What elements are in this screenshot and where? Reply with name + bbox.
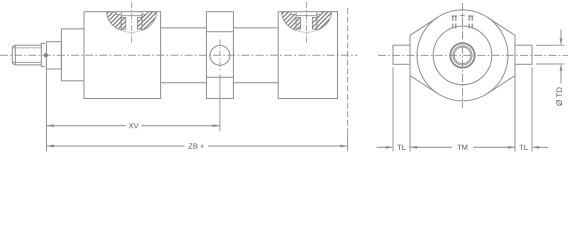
svg-text:XV: XV xyxy=(129,121,139,130)
shaft bore circle xyxy=(454,47,471,64)
XV dimension line xyxy=(47,125,127,127)
TD upper arrowhead xyxy=(560,38,563,45)
cap screws (pi marks) xyxy=(452,16,474,29)
inner ring top bar xyxy=(121,15,142,17)
node dot on centerline xyxy=(44,53,48,57)
flange body outline xyxy=(206,12,233,99)
inner ring strip right xyxy=(138,18,143,30)
XV extension from hole center xyxy=(219,75,221,132)
TM right arrowhead xyxy=(508,146,515,149)
right mounting lug xyxy=(515,45,532,64)
svg-text:TL: TL xyxy=(397,143,406,152)
ZB right arrowhead xyxy=(340,145,347,148)
bearing seat circle xyxy=(433,26,492,85)
outer ring wedge right xyxy=(317,12,332,31)
pocket arc bottom xyxy=(296,30,317,32)
centerline main shaft (left view) xyxy=(0,54,358,56)
TL left dimension line xyxy=(377,146,392,148)
middle flange block xyxy=(206,12,233,99)
ZB extension line solid lower part xyxy=(347,130,349,152)
TL right arrowhead xyxy=(532,146,539,149)
outer ring wedge left xyxy=(107,12,122,31)
flange upper face line xyxy=(206,31,233,33)
svg-text:Ø TD: Ø TD xyxy=(555,87,564,106)
dimension TL right xyxy=(532,146,548,149)
locking collar ring xyxy=(450,43,474,67)
right bearing pocket xyxy=(282,2,332,44)
dimension TL left xyxy=(377,146,394,149)
inner ring top bar xyxy=(296,15,317,17)
vertical centerline xyxy=(462,3,464,108)
horizontal centerline xyxy=(378,54,568,56)
right cap screw head xyxy=(468,16,473,21)
washer face xyxy=(41,43,45,66)
XV left arrowhead xyxy=(47,124,54,127)
left mounting lug xyxy=(393,45,410,64)
TD lower dimension line xyxy=(560,66,562,84)
split line tick xyxy=(460,15,464,17)
tangent lines xyxy=(410,17,515,93)
svg-text:TL: TL xyxy=(519,143,528,152)
pocket arc bottom xyxy=(121,30,142,32)
XV right arrowhead xyxy=(213,124,220,127)
outer ring wedge left xyxy=(282,12,297,31)
pocket centerline xyxy=(306,2,308,44)
flange bolt hole xyxy=(210,46,230,66)
thread root lines xyxy=(13,48,42,62)
threaded stub xyxy=(12,45,41,65)
stub outline with chamfers xyxy=(12,45,41,65)
right cap screw shank xyxy=(469,24,472,29)
inner ring circle xyxy=(453,46,472,65)
ZB dimension line xyxy=(47,145,185,147)
svg-text:TM: TM xyxy=(457,143,468,152)
left cap screw shank xyxy=(453,24,456,29)
medium cylinder xyxy=(61,29,84,81)
TL right dimension line xyxy=(533,146,548,148)
TD extension lines xyxy=(536,45,565,64)
TM left arrowhead xyxy=(410,146,417,149)
inner ring strip right xyxy=(312,18,317,30)
dimension XV xyxy=(47,124,220,127)
TD upper dimension line xyxy=(560,30,562,45)
left cap screw head xyxy=(452,16,457,21)
TL outer extension lines xyxy=(393,67,532,152)
XV/ZB left extension line xyxy=(46,69,48,151)
svg-text:ZB +: ZB + xyxy=(188,142,205,151)
collar xyxy=(46,42,61,69)
left bearing pocket xyxy=(107,2,157,44)
flange lower face line xyxy=(206,76,233,78)
left lug inner edge / TM extension line xyxy=(409,35,411,151)
outer ring wedge right xyxy=(142,12,157,31)
TD dimension arrows xyxy=(560,30,563,84)
TM dimension line xyxy=(410,146,452,148)
pocket centerline xyxy=(131,2,133,44)
TD lower arrowhead xyxy=(560,64,563,71)
flange hole vertical centerline xyxy=(219,40,221,72)
TL left arrowhead xyxy=(386,146,393,149)
right lug inner edge / TM extension line xyxy=(514,35,516,151)
ZB left arrowhead xyxy=(47,145,54,148)
housing outer circle xyxy=(417,10,508,101)
dimension TM xyxy=(410,146,515,149)
right bearing block xyxy=(278,12,337,99)
inner ring strip left xyxy=(121,18,126,30)
ZB dashed extension line xyxy=(347,8,349,130)
shaft between blocks xyxy=(161,28,279,83)
inner ring strip left xyxy=(296,18,301,30)
left bearing block xyxy=(84,12,161,99)
dimension ZB + xyxy=(47,145,348,148)
